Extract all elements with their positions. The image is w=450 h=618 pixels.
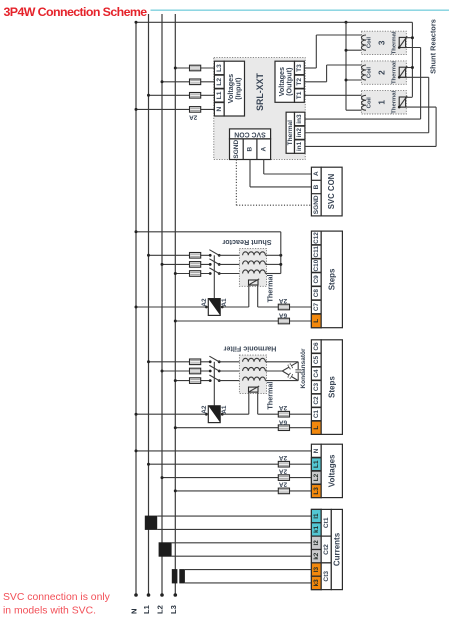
svg-text:L: L xyxy=(313,426,320,430)
svg-text:3: 3 xyxy=(378,40,387,45)
svg-text:L1: L1 xyxy=(313,460,320,468)
svg-text:SVC CON: SVC CON xyxy=(327,173,336,209)
svg-text:Thermal: Thermal xyxy=(265,382,274,410)
svg-text:Ct3: Ct3 xyxy=(323,571,330,582)
svg-text:Ct1: Ct1 xyxy=(323,517,330,528)
svg-text:SGND: SGND xyxy=(233,140,240,159)
svg-text:Thermal: Thermal xyxy=(392,61,398,84)
svg-text:T3: T3 xyxy=(296,64,303,72)
svg-text:C5: C5 xyxy=(313,356,320,365)
svg-text:Shunt Reactor: Shunt Reactor xyxy=(222,238,271,247)
svg-text:B: B xyxy=(313,184,320,189)
svg-text:Harmonic Filter: Harmonic Filter xyxy=(223,345,276,354)
svg-text:Steps: Steps xyxy=(327,376,336,398)
svg-text:3P4W Connection Scheme: 3P4W Connection Scheme xyxy=(4,5,148,19)
svg-text:T2: T2 xyxy=(296,78,303,86)
svg-text:Coil: Coil xyxy=(367,97,373,108)
svg-text:Coil: Coil xyxy=(367,67,373,78)
svg-text:Steps: Steps xyxy=(327,268,336,290)
svg-text:l1: l1 xyxy=(313,513,320,519)
svg-text:C1: C1 xyxy=(313,410,320,419)
svg-text:A1: A1 xyxy=(221,298,228,307)
svg-text:Shunt Reactors: Shunt Reactors xyxy=(429,19,438,74)
svg-text:2: 2 xyxy=(378,70,387,75)
svg-text:C3: C3 xyxy=(313,383,320,392)
svg-text:in1: in1 xyxy=(296,141,303,151)
svg-text:L3: L3 xyxy=(313,487,320,495)
svg-text:C6: C6 xyxy=(313,342,320,351)
svg-text:N: N xyxy=(216,107,223,112)
svg-text:C2: C2 xyxy=(313,396,320,405)
svg-text:Ct2: Ct2 xyxy=(323,544,330,555)
svg-text:C9: C9 xyxy=(313,275,320,284)
svg-text:k2: k2 xyxy=(313,552,320,560)
svg-text:2A: 2A xyxy=(279,467,288,474)
svg-text:SRL-XXT: SRL-XXT xyxy=(255,73,265,111)
svg-text:C7: C7 xyxy=(313,302,320,311)
svg-text:in models with SVC.: in models with SVC. xyxy=(3,606,96,617)
svg-text:Coil: Coil xyxy=(367,37,373,48)
svg-text:L3: L3 xyxy=(216,64,223,72)
svg-text:A: A xyxy=(313,171,320,176)
svg-text:L1: L1 xyxy=(142,604,151,614)
svg-text:L1: L1 xyxy=(216,91,223,99)
svg-text:Kondansatör: Kondansatör xyxy=(300,348,307,389)
svg-text:Voltages: Voltages xyxy=(327,454,336,487)
svg-text:in2: in2 xyxy=(296,128,303,138)
svg-text:C8: C8 xyxy=(313,289,320,298)
svg-text:SGND: SGND xyxy=(313,195,320,214)
svg-text:l2: l2 xyxy=(313,540,320,546)
svg-text:(Input): (Input) xyxy=(234,77,243,100)
svg-text:N: N xyxy=(130,609,139,614)
svg-text:2A: 2A xyxy=(279,404,288,411)
svg-text:l3: l3 xyxy=(313,566,320,572)
svg-text:C4: C4 xyxy=(313,369,320,378)
svg-text:SVC CON: SVC CON xyxy=(234,131,265,138)
svg-text:(Output): (Output) xyxy=(284,67,293,96)
svg-text:Currents: Currents xyxy=(332,532,341,566)
svg-text:T1: T1 xyxy=(296,91,303,99)
svg-text:2A: 2A xyxy=(279,297,288,304)
svg-text:A: A xyxy=(260,147,267,152)
svg-text:B: B xyxy=(247,147,254,152)
svg-text:A1: A1 xyxy=(221,405,228,414)
svg-text:k1: k1 xyxy=(313,525,320,533)
svg-text:L2: L2 xyxy=(156,605,165,614)
svg-text:2A: 2A xyxy=(279,481,288,488)
svg-text:C10: C10 xyxy=(313,259,320,271)
svg-text:6A: 6A xyxy=(279,418,288,425)
svg-text:L2: L2 xyxy=(216,78,223,86)
svg-text:1: 1 xyxy=(378,100,387,105)
svg-text:Thermal: Thermal xyxy=(392,90,398,113)
svg-text:k3: k3 xyxy=(313,579,320,587)
svg-text:N: N xyxy=(313,448,320,453)
svg-text:C12: C12 xyxy=(313,232,320,244)
svg-text:Thermal: Thermal xyxy=(392,31,398,54)
svg-text:Thermal: Thermal xyxy=(287,120,294,145)
svg-text:A2: A2 xyxy=(201,405,208,414)
svg-text:in3: in3 xyxy=(296,114,303,124)
svg-text:L: L xyxy=(313,319,320,323)
svg-text:L3: L3 xyxy=(169,605,178,614)
svg-text:6A: 6A xyxy=(279,312,288,319)
svg-text:C11: C11 xyxy=(313,246,320,258)
svg-text:Thermal: Thermal xyxy=(265,275,274,303)
svg-text:2A: 2A xyxy=(279,454,288,461)
svg-text:A2: A2 xyxy=(201,298,208,307)
svg-text:2A: 2A xyxy=(189,114,198,121)
svg-text:SVC connection is only: SVC connection is only xyxy=(3,592,111,603)
svg-text:L2: L2 xyxy=(313,473,320,481)
